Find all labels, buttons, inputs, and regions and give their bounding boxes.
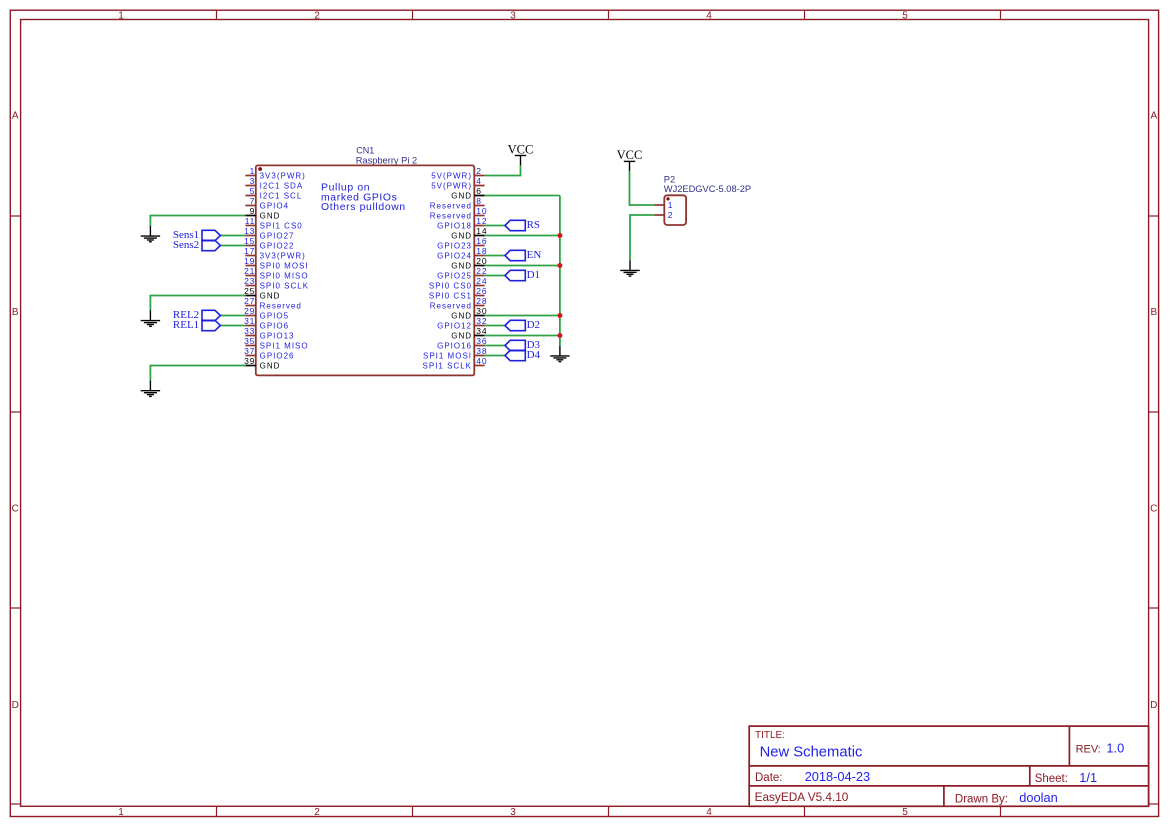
CN1 pin 1 3V3(PWR) bbox=[245, 166, 305, 180]
svg-text:GPIO5: GPIO5 bbox=[260, 311, 289, 320]
svg-text:35: 35 bbox=[244, 336, 255, 346]
net flag D2 bbox=[505, 319, 540, 331]
svg-text:11: 11 bbox=[245, 216, 255, 226]
svg-text:3: 3 bbox=[510, 10, 516, 21]
CN1 pin 26 SPI0 CS1 bbox=[429, 286, 488, 300]
svg-text:doolan: doolan bbox=[1019, 790, 1057, 805]
svg-text:CN1: CN1 bbox=[356, 145, 374, 155]
svg-text:Reserved: Reserved bbox=[430, 201, 472, 210]
svg-text:1.0: 1.0 bbox=[1106, 741, 1124, 756]
wire pin6 to GND bus bbox=[485, 195, 560, 197]
svg-text:GPIO22: GPIO22 bbox=[260, 241, 295, 250]
svg-text:GPIO24: GPIO24 bbox=[437, 251, 472, 260]
svg-text:Sens2: Sens2 bbox=[173, 239, 199, 251]
svg-text:C: C bbox=[1150, 504, 1157, 515]
svg-text:4: 4 bbox=[706, 807, 712, 818]
CN1 pin 5 I2C1 SCL bbox=[245, 186, 302, 200]
svg-text:5V(PWR): 5V(PWR) bbox=[431, 171, 472, 180]
wire Sens2 to pin15 bbox=[220, 245, 245, 247]
note text pullup/pulldown bbox=[321, 182, 406, 213]
power flag VCC (P2) bbox=[617, 148, 643, 171]
svg-text:16: 16 bbox=[476, 236, 487, 246]
wire pin22 to D1 bbox=[485, 275, 505, 277]
CN1 pin 20 GND bbox=[451, 256, 487, 270]
net flag Sens2 bbox=[173, 239, 220, 251]
svg-text:Raspberry Pi 2: Raspberry Pi 2 bbox=[356, 155, 418, 165]
svg-text:GND: GND bbox=[260, 211, 281, 220]
CN1 pin 30 GND bbox=[451, 306, 487, 320]
svg-text:New Schematic: New Schematic bbox=[760, 745, 863, 761]
svg-text:GND: GND bbox=[451, 191, 472, 200]
svg-text:GND: GND bbox=[451, 311, 472, 320]
svg-text:GPIO16: GPIO16 bbox=[437, 341, 472, 350]
wire Sens1 to pin13 bbox=[220, 235, 245, 237]
svg-text:D4: D4 bbox=[527, 349, 541, 361]
CN1 pin 36 GPIO16 bbox=[437, 336, 487, 350]
junction at pin14/bus bbox=[557, 233, 562, 238]
wire pin12 to RS bbox=[485, 225, 505, 227]
wire pin20 to bus bbox=[485, 265, 560, 267]
CN1 pin 25 GND bbox=[244, 286, 280, 300]
CN1 pin 18 GPIO24 bbox=[437, 246, 487, 260]
svg-text:SPI0 CS0: SPI0 CS0 bbox=[429, 281, 472, 290]
svg-text:Reserved: Reserved bbox=[430, 211, 472, 220]
svg-text:SPI1 MOSI: SPI1 MOSI bbox=[423, 351, 472, 360]
ground GND2 bbox=[141, 311, 160, 327]
svg-text:15: 15 bbox=[244, 236, 255, 246]
svg-text:VCC: VCC bbox=[508, 142, 534, 156]
svg-text:VCC: VCC bbox=[617, 148, 643, 162]
svg-text:GPIO6: GPIO6 bbox=[260, 321, 289, 330]
svg-text:GPIO12: GPIO12 bbox=[437, 321, 472, 330]
svg-text:5: 5 bbox=[902, 807, 908, 818]
wire pin25 to GND net bbox=[150, 296, 245, 311]
wire pin30 to bus bbox=[485, 315, 560, 317]
svg-text:1: 1 bbox=[250, 166, 256, 176]
svg-text:Reserved: Reserved bbox=[430, 301, 472, 310]
svg-text:3V3(PWR): 3V3(PWR) bbox=[260, 251, 306, 260]
net flag REL2 bbox=[173, 309, 220, 321]
svg-text:WJ2EDGVC-5.08-2P: WJ2EDGVC-5.08-2P bbox=[664, 184, 751, 194]
wire VCC to P2 pin1 bbox=[630, 171, 655, 205]
svg-text:1: 1 bbox=[118, 807, 124, 818]
net flag REL1 bbox=[173, 319, 220, 331]
svg-text:33: 33 bbox=[244, 326, 255, 336]
CN1 pin 38 SPI1 MOSI bbox=[423, 346, 487, 360]
svg-text:2: 2 bbox=[314, 10, 320, 21]
CN1 pin 16 GPIO23 bbox=[437, 236, 487, 250]
svg-text:A: A bbox=[1150, 111, 1157, 122]
svg-text:GPIO23: GPIO23 bbox=[437, 241, 472, 250]
svg-text:Drawn By:: Drawn By: bbox=[955, 793, 1008, 805]
CN1 pin 7 GPIO4 bbox=[245, 196, 289, 210]
CN1 pin 6 GND bbox=[451, 186, 484, 200]
CN1 pin 33 GPIO13 bbox=[244, 326, 294, 340]
CN1 pin 11 SPI1 CS0 bbox=[245, 216, 303, 230]
wire pin9 to GND net bbox=[150, 216, 245, 227]
svg-text:SPI0 MISO: SPI0 MISO bbox=[260, 271, 309, 280]
CN1 pin 39 GND bbox=[244, 356, 280, 370]
svg-text:C: C bbox=[12, 504, 19, 515]
svg-text:19: 19 bbox=[244, 256, 255, 266]
svg-text:GPIO27: GPIO27 bbox=[260, 231, 295, 240]
svg-text:D1: D1 bbox=[527, 269, 540, 281]
CN1 pin 27 Reserved bbox=[244, 296, 302, 310]
svg-text:GPIO25: GPIO25 bbox=[437, 271, 472, 280]
svg-text:6: 6 bbox=[476, 186, 482, 196]
svg-text:26: 26 bbox=[476, 286, 487, 296]
svg-text:17: 17 bbox=[244, 246, 255, 256]
wire pin2 to VCC bbox=[485, 165, 521, 175]
net flag D3 bbox=[505, 339, 541, 351]
CN1 pin 17 3V3(PWR) bbox=[244, 246, 306, 260]
svg-text:Reserved: Reserved bbox=[260, 301, 302, 310]
wire pin39 to GND net bbox=[150, 366, 245, 381]
CN1 pin 10 Reserved bbox=[430, 206, 488, 220]
junction at pin20/bus bbox=[557, 263, 562, 268]
wire pin36 to D3 bbox=[485, 345, 505, 347]
connector P2 body rectangle bbox=[664, 195, 686, 225]
svg-text:4: 4 bbox=[476, 176, 482, 186]
svg-text:GPIO26: GPIO26 bbox=[260, 351, 295, 360]
svg-text:SPI0 SCLK: SPI0 SCLK bbox=[260, 281, 309, 290]
CN1 pin 31 GPIO6 bbox=[244, 316, 289, 330]
svg-text:5: 5 bbox=[902, 10, 908, 21]
CN1 pin 21 SPI0 MISO bbox=[244, 266, 308, 280]
svg-text:2: 2 bbox=[668, 210, 673, 220]
svg-text:25: 25 bbox=[244, 286, 255, 296]
wire pin18 to EN bbox=[485, 255, 505, 257]
svg-text:3V3(PWR): 3V3(PWR) bbox=[260, 171, 306, 180]
CN1 pin 23 SPI0 SCLK bbox=[244, 276, 309, 290]
CN1 pin 9 GND bbox=[245, 206, 280, 220]
svg-text:GND: GND bbox=[451, 261, 472, 270]
svg-text:EN: EN bbox=[527, 249, 542, 261]
wire pin38 to D4 bbox=[485, 355, 505, 357]
wire REL1 to pin31 bbox=[220, 325, 245, 327]
CN1 pin 13 GPIO27 bbox=[244, 226, 294, 240]
svg-text:A: A bbox=[12, 111, 19, 122]
svg-text:31: 31 bbox=[244, 316, 255, 326]
svg-text:EasyEDA V5.4.10: EasyEDA V5.4.10 bbox=[755, 790, 849, 804]
svg-text:1: 1 bbox=[668, 200, 673, 210]
svg-text:Date:: Date: bbox=[755, 772, 783, 784]
CN1 pin 34 GND bbox=[451, 326, 487, 340]
svg-text:B: B bbox=[12, 307, 19, 318]
svg-text:GND: GND bbox=[451, 231, 472, 240]
svg-text:RS: RS bbox=[527, 219, 540, 231]
power flag VCC (CN1) bbox=[508, 142, 534, 165]
svg-text:27: 27 bbox=[244, 296, 255, 306]
svg-text:2: 2 bbox=[476, 166, 482, 176]
svg-text:3: 3 bbox=[250, 176, 256, 186]
svg-text:I2C1 SCL: I2C1 SCL bbox=[260, 191, 303, 200]
svg-text:GPIO13: GPIO13 bbox=[260, 331, 295, 340]
title block grid lines bbox=[749, 726, 1148, 806]
svg-text:SPI1 CS0: SPI1 CS0 bbox=[260, 221, 303, 230]
svg-text:GND: GND bbox=[260, 361, 281, 370]
CN1 pin 28 Reserved bbox=[430, 296, 488, 310]
connector CN1 pin-1 marker dot bbox=[258, 167, 262, 171]
CN1 pin 4 5V(PWR) bbox=[431, 176, 484, 190]
CN1 pin 37 GPIO26 bbox=[244, 346, 294, 360]
P2 pin 2 stub bbox=[655, 214, 665, 216]
CN1 pin 35 SPI1 MISO bbox=[244, 336, 308, 350]
junction at pin34/bus bbox=[557, 333, 562, 338]
CN1 pin 40 SPI1 SCLK bbox=[423, 356, 488, 370]
wire pin34 to bus bbox=[485, 335, 560, 337]
ground GND4 (bus) bbox=[550, 346, 569, 362]
svg-text:24: 24 bbox=[476, 276, 487, 286]
svg-text:GND: GND bbox=[451, 331, 472, 340]
CN1 pin 15 GPIO22 bbox=[244, 236, 294, 250]
connector CN1 body rectangle bbox=[256, 165, 474, 375]
svg-text:7: 7 bbox=[250, 196, 256, 206]
svg-text:37: 37 bbox=[244, 346, 255, 356]
net flag Sens1 bbox=[173, 229, 220, 241]
svg-text:29: 29 bbox=[244, 306, 255, 316]
svg-text:28: 28 bbox=[476, 296, 487, 306]
svg-text:5: 5 bbox=[250, 186, 256, 196]
svg-text:REV:: REV: bbox=[1076, 744, 1101, 756]
svg-text:B: B bbox=[1150, 307, 1157, 318]
svg-text:D: D bbox=[1150, 700, 1157, 711]
ground GND3 bbox=[141, 381, 160, 397]
ground GND5 (P2) bbox=[620, 260, 639, 276]
svg-text:Sheet:: Sheet: bbox=[1035, 773, 1068, 785]
CN1 pin 8 Reserved bbox=[430, 196, 485, 210]
CN1 pin 22 GPIO25 bbox=[437, 266, 487, 280]
wire pin14 to bus bbox=[485, 235, 560, 237]
CN1 pin 19 SPI0 MOSI bbox=[244, 256, 308, 270]
svg-text:Others pulldown: Others pulldown bbox=[321, 202, 406, 213]
CN1 pin 3 I2C1 SDA bbox=[245, 176, 303, 190]
CN1 pin 24 SPI0 CS0 bbox=[429, 276, 488, 290]
svg-text:1: 1 bbox=[118, 10, 124, 21]
svg-text:3: 3 bbox=[510, 807, 516, 818]
ground GND1 bbox=[141, 226, 160, 242]
CN1 pin 14 GND bbox=[451, 226, 487, 240]
svg-text:1/1: 1/1 bbox=[1079, 770, 1097, 785]
svg-text:GPIO18: GPIO18 bbox=[437, 221, 472, 230]
svg-text:13: 13 bbox=[244, 226, 255, 236]
svg-text:D2: D2 bbox=[527, 319, 540, 331]
svg-text:4: 4 bbox=[706, 10, 712, 21]
CN1 pin 29 GPIO5 bbox=[244, 306, 289, 320]
wire REL2 to pin29 bbox=[220, 315, 245, 317]
svg-text:5V(PWR): 5V(PWR) bbox=[431, 181, 472, 190]
CN1 pin 2 5V(PWR) bbox=[431, 166, 484, 180]
svg-text:10: 10 bbox=[476, 206, 487, 216]
svg-text:SPI1 MISO: SPI1 MISO bbox=[260, 341, 309, 350]
connector P2 pin-1 marker dot bbox=[666, 197, 669, 200]
svg-text:23: 23 bbox=[244, 276, 255, 286]
svg-text:8: 8 bbox=[476, 196, 482, 206]
wire GND bus vertical bbox=[559, 196, 561, 346]
svg-text:SPI0 CS1: SPI0 CS1 bbox=[429, 291, 472, 300]
net flag EN bbox=[505, 249, 541, 261]
CN1 pin 32 GPIO12 bbox=[437, 316, 487, 330]
svg-text:REL1: REL1 bbox=[173, 319, 199, 331]
svg-text:40: 40 bbox=[476, 356, 487, 366]
wire P2 pin2 to GND bbox=[630, 215, 655, 260]
P2 pin 1 stub bbox=[655, 204, 665, 206]
net flag D1 bbox=[505, 269, 540, 281]
svg-text:SPI1 SCLK: SPI1 SCLK bbox=[423, 361, 472, 370]
svg-text:2: 2 bbox=[314, 807, 320, 818]
svg-text:I2C1 SDA: I2C1 SDA bbox=[260, 181, 304, 190]
svg-text:TITLE:: TITLE: bbox=[755, 730, 785, 741]
CN1 pin 12 GPIO18 bbox=[437, 216, 487, 230]
svg-text:21: 21 bbox=[244, 266, 255, 276]
svg-text:9: 9 bbox=[250, 206, 256, 216]
svg-text:D: D bbox=[12, 700, 19, 711]
net flag D4 bbox=[505, 349, 541, 361]
svg-text:GND: GND bbox=[260, 291, 281, 300]
svg-text:2018-04-23: 2018-04-23 bbox=[805, 769, 870, 784]
net flag RS bbox=[505, 219, 540, 231]
svg-text:39: 39 bbox=[244, 356, 255, 366]
junction at pin30/bus bbox=[557, 313, 562, 318]
svg-text:SPI0 MOSI: SPI0 MOSI bbox=[260, 261, 309, 270]
wire pin32 to D2 bbox=[485, 325, 505, 327]
svg-text:GPIO4: GPIO4 bbox=[260, 201, 289, 210]
